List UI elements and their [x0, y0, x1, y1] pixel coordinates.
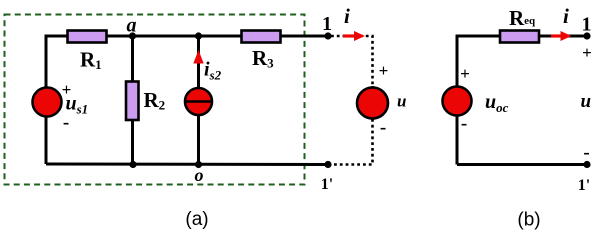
svg-text:(a): (a)	[185, 209, 208, 230]
svg-text:u: u	[397, 92, 406, 111]
svg-text:+: +	[62, 80, 72, 99]
svg-text:+: +	[460, 64, 470, 83]
svg-text:+: +	[379, 61, 389, 80]
svg-text:o: o	[195, 165, 204, 185]
svg-text:-: -	[380, 117, 386, 138]
svg-text:i: i	[344, 4, 350, 28]
svg-text:1': 1'	[578, 177, 590, 194]
svg-text:u: u	[581, 91, 592, 112]
svg-text:+: +	[582, 43, 592, 62]
svg-text:1: 1	[322, 13, 332, 35]
svg-text:(b): (b)	[517, 210, 540, 231]
svg-text:a: a	[127, 15, 137, 37]
svg-text:1': 1'	[321, 176, 333, 193]
svg-text:1: 1	[582, 14, 592, 36]
svg-text:i: i	[563, 4, 569, 28]
svg-text:-: -	[461, 113, 467, 134]
svg-text:-: -	[63, 112, 69, 133]
svg-text:-: -	[583, 142, 589, 163]
